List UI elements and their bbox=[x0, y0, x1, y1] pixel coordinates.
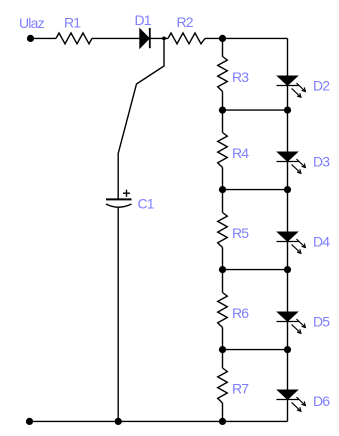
node rung4 left bbox=[219, 346, 226, 353]
node D1-C1 junction bbox=[162, 37, 166, 41]
LED D6 bbox=[277, 390, 306, 411]
node Ulaz terminal bbox=[27, 35, 34, 42]
wire R3 top lead bbox=[222, 38, 224, 56]
node rung3 left bbox=[219, 266, 226, 273]
svg-text:C1: C1 bbox=[138, 196, 155, 212]
resistor R6 bbox=[218, 293, 228, 328]
resistor R7 bbox=[218, 368, 228, 403]
node R7 bottom junction bbox=[219, 418, 226, 425]
node bottom terminal bbox=[26, 418, 33, 425]
LED D5 bbox=[277, 312, 306, 333]
wire R6 top lead bbox=[222, 270, 224, 293]
wire D1 junction to capacitor bbox=[118, 38, 164, 199]
wire rung 1 bbox=[223, 109, 288, 111]
LED D2 bbox=[277, 76, 306, 97]
node R2 output junction bbox=[219, 35, 226, 42]
LED D4 bbox=[277, 232, 306, 253]
diode D1 bbox=[140, 29, 149, 47]
wire R7 bottom lead bbox=[222, 403, 224, 421]
wire C1 to bottom rail bbox=[117, 207, 119, 422]
node rung3 right bbox=[284, 266, 291, 273]
node rung2 right bbox=[284, 186, 291, 193]
wire R7 top lead bbox=[222, 350, 224, 368]
wire D1 to R2 bbox=[151, 37, 169, 39]
node rung1 left bbox=[219, 107, 226, 114]
wire R4 top lead bbox=[222, 110, 224, 132]
resistor R2 bbox=[168, 33, 205, 44]
svg-text:R2: R2 bbox=[177, 14, 194, 30]
svg-text:Ulaz: Ulaz bbox=[19, 15, 45, 31]
wire rung 2 bbox=[223, 189, 288, 191]
svg-text:R7: R7 bbox=[232, 380, 249, 396]
diode D1 cathode bar bbox=[149, 28, 151, 48]
node rung2 left bbox=[219, 186, 226, 193]
svg-text:D5: D5 bbox=[313, 313, 330, 329]
svg-text:D2: D2 bbox=[313, 78, 330, 94]
svg-text:R3: R3 bbox=[232, 69, 249, 85]
wire LED column bbox=[287, 38, 289, 421]
node C1 bottom junction bbox=[115, 418, 122, 425]
wire R3 bottom lead bbox=[222, 92, 224, 111]
capacitor C1 plus sign bbox=[123, 192, 130, 194]
wire R1 to D1 bbox=[92, 37, 140, 39]
wire R4 bottom lead bbox=[222, 168, 224, 190]
wire R5 top lead bbox=[222, 190, 224, 213]
wire rung 3 bbox=[223, 269, 288, 271]
svg-text:D1: D1 bbox=[135, 12, 152, 28]
resistor R3 bbox=[218, 57, 228, 92]
svg-text:R1: R1 bbox=[64, 14, 81, 30]
node rung4 right bbox=[284, 346, 291, 353]
wire R5 bottom lead bbox=[222, 248, 224, 270]
resistor R4 bbox=[218, 133, 228, 168]
wire top rail left bbox=[31, 37, 57, 39]
svg-text:D3: D3 bbox=[313, 154, 330, 170]
resistor R5 bbox=[218, 213, 228, 248]
svg-text:D6: D6 bbox=[313, 393, 330, 409]
LED D3 bbox=[277, 152, 306, 173]
svg-text:R4: R4 bbox=[232, 145, 249, 161]
capacitor C1 bottom plate bbox=[106, 204, 132, 207]
wire rung 4 bbox=[223, 349, 288, 351]
wire R6 bottom lead bbox=[222, 328, 224, 350]
resistor R1 bbox=[56, 33, 92, 44]
wire R2 to top-right corner bbox=[205, 37, 288, 39]
svg-text:D4: D4 bbox=[313, 233, 330, 249]
svg-text:R6: R6 bbox=[232, 305, 249, 321]
node rung1 right bbox=[284, 107, 291, 114]
capacitor C1 top plate bbox=[106, 198, 132, 200]
wire bottom rail bbox=[30, 420, 288, 422]
svg-text:R5: R5 bbox=[232, 225, 249, 241]
